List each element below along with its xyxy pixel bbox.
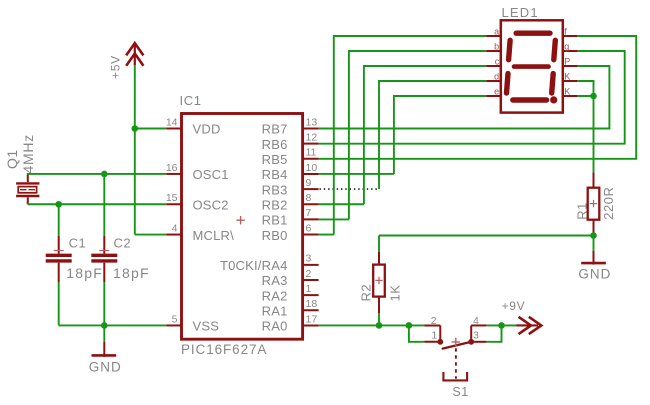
svg-text:+9V: +9V	[502, 299, 526, 313]
svg-text:T0CKI/RA4: T0CKI/RA4	[220, 258, 288, 273]
svg-text:11: 11	[306, 147, 317, 159]
wire segment d vertical+top	[379, 81, 486, 189]
wire RB2 pin8 to node c	[319, 203, 364, 205]
ground GND (right)	[581, 236, 606, 265]
svg-text:VSS: VSS	[193, 319, 220, 334]
pin a LED left	[486, 26, 501, 36]
ground GND (left)	[92, 325, 117, 356]
svg-text:LED1: LED1	[502, 5, 539, 20]
svg-text:MCLR\: MCLR\	[193, 228, 235, 243]
pin 9 RB3 (right)	[262, 177, 319, 197]
switch S1 actuator dashed link	[455, 348, 457, 379]
svg-text:K: K	[564, 71, 570, 81]
wire RB5 pin11 to f	[319, 36, 637, 159]
svg-text:5: 5	[172, 313, 178, 325]
junction R1/GND	[590, 232, 597, 239]
svg-text:1: 1	[306, 283, 312, 295]
svg-text:12: 12	[306, 131, 318, 143]
capacitor C1	[46, 236, 72, 282]
svg-text:4: 4	[473, 315, 479, 327]
pin 2 RA3 (right)	[262, 268, 319, 288]
wire R2 bottom	[378, 313, 380, 325]
wire VDD to rail	[135, 128, 167, 130]
resistor R1 220R	[588, 173, 600, 236]
svg-text:1K: 1K	[388, 285, 403, 302]
wire K lower to K column	[577, 95, 593, 97]
pin 18 RA1 (right)	[262, 298, 319, 318]
wire OSC2 net: crystal bottom to pin 15	[28, 203, 167, 205]
wire C1 top	[58, 204, 60, 236]
7-segment digit 8 with decimal point	[516, 31, 550, 36]
pin 8 RB2 (right)	[262, 192, 319, 212]
svg-text:e: e	[494, 86, 499, 96]
pin 14 VDD (left)	[166, 116, 221, 136]
svg-text:PIC16F627A: PIC16F627A	[181, 342, 267, 357]
svg-text:RB4: RB4	[262, 167, 288, 182]
origin cross C2	[99, 250, 109, 252]
junction OSC1 / C2	[101, 171, 108, 178]
svg-text:2: 2	[431, 315, 437, 327]
pin 3 T0CKI/RA4 (right)	[220, 253, 319, 273]
svg-text:b: b	[494, 41, 499, 51]
wire S1 pin4 to +9V junction	[486, 324, 501, 326]
svg-text:3: 3	[473, 329, 479, 341]
LED display LED1 body	[501, 20, 563, 112]
junction R2 bottom	[376, 322, 383, 329]
svg-text:VDD: VDD	[193, 122, 221, 137]
pin 11 RB5 (right)	[262, 147, 319, 167]
svg-text:RA2: RA2	[262, 288, 288, 303]
svg-text:RB1: RB1	[262, 213, 288, 228]
svg-text:GND: GND	[578, 267, 611, 282]
pin g LED right	[563, 41, 578, 51]
svg-text:17: 17	[306, 313, 318, 325]
resistor R2 1K	[373, 252, 385, 313]
origin cross R2	[375, 277, 382, 284]
wire C2 bottom	[103, 282, 105, 325]
svg-text:P: P	[564, 56, 570, 66]
svg-text:14: 14	[166, 116, 178, 128]
switch S1 lever	[443, 342, 472, 349]
wire C2 top	[103, 174, 105, 236]
wire S1 branch to pin 1	[409, 325, 424, 341]
wire RB6 pin12 to g	[319, 51, 625, 144]
svg-text:7: 7	[306, 207, 312, 219]
svg-text:RA1: RA1	[262, 304, 288, 319]
pin K LED right	[563, 86, 578, 96]
svg-text:RA0: RA0	[262, 319, 288, 334]
wire GND row to VSS pin 5	[59, 324, 167, 326]
svg-text:Q1: Q1	[4, 149, 20, 169]
origin cross R1	[590, 200, 597, 207]
wire segment b vertical+top	[349, 51, 486, 219]
wire R1 bottom to R2 top	[379, 235, 594, 237]
junction OSC2 / C1	[55, 201, 62, 208]
junction +9V	[498, 322, 505, 329]
pin c LED left	[486, 56, 501, 66]
svg-text:13: 13	[306, 116, 318, 128]
svg-text:3: 3	[306, 253, 312, 265]
wire R2 top corner	[378, 236, 380, 253]
pin 1 RA2 (right)	[262, 283, 319, 303]
svg-text:d: d	[494, 71, 499, 81]
svg-text:8: 8	[306, 192, 312, 204]
pin 12 RB6 (right)	[262, 131, 319, 151]
pin e LED left	[486, 86, 501, 96]
svg-text:+5V: +5V	[109, 55, 123, 79]
svg-text:K: K	[564, 86, 570, 96]
svg-text:220R: 220R	[601, 187, 616, 220]
wire RB7 pin13 to P (dp)	[319, 66, 610, 129]
svg-text:GND: GND	[89, 360, 122, 375]
svg-text:15: 15	[166, 192, 178, 204]
svg-text:9: 9	[306, 177, 312, 189]
wire RB0 pin6 to node a	[319, 234, 334, 236]
svg-text:18pF: 18pF	[113, 265, 150, 281]
svg-text:4MHz: 4MHz	[20, 134, 36, 173]
junction S1 branch	[406, 322, 413, 329]
svg-text:OSC2: OSC2	[193, 197, 229, 212]
svg-text:4: 4	[172, 222, 178, 234]
wire OSC1 net: crystal top to pin 16	[28, 173, 167, 175]
pin K LED right	[563, 71, 578, 81]
wire RB3 pin9 to node d (dotted)	[320, 188, 380, 190]
junction K pins	[590, 93, 597, 100]
origin cross C1	[54, 250, 64, 252]
IC U1 IC1 PIC16F627A body	[182, 114, 303, 340]
pin 5 VSS (left)	[166, 313, 219, 333]
origin cross IC1	[236, 216, 244, 224]
pin b LED left	[486, 41, 501, 51]
pin d LED left	[486, 71, 501, 81]
svg-text:R1: R1	[574, 202, 589, 220]
svg-text:RB7: RB7	[262, 122, 288, 137]
pin 16 OSC1 (left)	[166, 162, 229, 182]
svg-text:c: c	[495, 56, 500, 66]
decimal point	[550, 96, 557, 103]
svg-text:RB5: RB5	[262, 152, 288, 167]
wire RA0 pin17 to S1	[319, 324, 425, 326]
pin P LED right	[563, 56, 578, 66]
svg-text:6: 6	[306, 222, 312, 234]
switch S1 contacts left (pins 2,1)	[424, 325, 443, 344]
wire +5V rail vertical	[134, 65, 136, 234]
pin 13 RB7 (right)	[262, 116, 319, 136]
pin f LED right	[563, 26, 578, 36]
wire K upper to K column	[577, 81, 593, 96]
svg-text:2: 2	[306, 268, 312, 280]
wire junction to +9V arrow	[502, 324, 517, 326]
junction +5V/VDD	[132, 125, 139, 132]
svg-text:1: 1	[431, 329, 437, 341]
svg-text:IC1: IC1	[180, 93, 202, 108]
pin 4 MCLR\ (left)	[166, 222, 234, 242]
supply +5V symbol	[126, 43, 143, 66]
wire segment a vertical+top	[334, 36, 486, 235]
svg-text:C2: C2	[114, 235, 132, 250]
capacitor C2	[91, 236, 117, 282]
pin 10 RB4 (right)	[262, 162, 319, 182]
wire RB1 pin7 to node b	[319, 218, 349, 220]
supply +9V symbol	[517, 317, 542, 334]
svg-text:RB2: RB2	[262, 197, 288, 212]
pin 15 OSC2 (left)	[166, 192, 229, 212]
wire rail to MCLR pin 4	[135, 234, 167, 236]
svg-text:S1: S1	[452, 385, 468, 399]
svg-text:g: g	[564, 41, 569, 51]
switch S1 actuator bracket	[443, 372, 467, 380]
svg-text:RA3: RA3	[262, 273, 288, 288]
crystal Q1 4MHz	[16, 174, 39, 204]
svg-text:R2: R2	[358, 284, 373, 302]
pin 7 RB1 (right)	[262, 207, 319, 227]
switch S1 contacts right (pins 4,3)	[468, 325, 486, 344]
wire S1 pin3 to +9V junction	[486, 325, 501, 341]
svg-text:OSC1: OSC1	[193, 167, 229, 182]
wire C1 bottom	[58, 282, 60, 325]
junction GND / C2	[101, 322, 108, 329]
svg-text:18pF: 18pF	[66, 265, 103, 281]
wire K column down to R1	[593, 96, 595, 173]
svg-text:RB3: RB3	[262, 182, 288, 197]
wire segment e vertical+top	[394, 96, 486, 174]
pin 17 RA0 (right)	[262, 313, 319, 333]
svg-text:a: a	[494, 26, 499, 36]
svg-text:18: 18	[306, 298, 318, 310]
pin 6 RB0 (right)	[262, 222, 319, 242]
svg-text:RB6: RB6	[262, 137, 288, 152]
wire RB4 pin10 to node e	[319, 173, 394, 175]
wire segment c vertical+top	[364, 66, 486, 204]
svg-text:RB0: RB0	[262, 228, 288, 243]
svg-text:16: 16	[166, 162, 178, 174]
svg-text:10: 10	[306, 162, 318, 174]
svg-text:C1: C1	[69, 235, 87, 250]
origin cross S1	[452, 338, 460, 346]
